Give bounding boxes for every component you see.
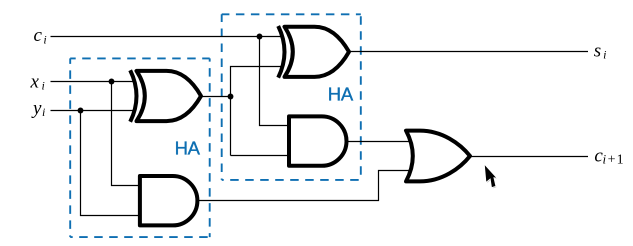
- svg-text:HA: HA: [175, 138, 201, 159]
- svg-text:ci: ci: [34, 25, 47, 46]
- node junction on y_i: [78, 108, 84, 114]
- and gate U4 (HA2 carry): [289, 116, 347, 165]
- wire XOR1 output to junction: [201, 96, 231, 98]
- mouse cursor: [485, 165, 497, 188]
- svg-text:si: si: [594, 41, 607, 62]
- wire AND1 output to OR bottom input: [197, 171, 411, 201]
- xor gate U3 (HA2 sum): [278, 26, 349, 78]
- wire XOR2 output to s_i: [349, 51, 588, 53]
- svg-text:ci+1: ci+1: [594, 145, 624, 167]
- xor gate U1 (HA1 sum): [130, 70, 201, 122]
- wire branch up to XOR2 bottom input: [231, 67, 283, 156]
- svg-text:xi: xi: [30, 71, 45, 92]
- HA box 2 (right half adder dashed outline): [222, 14, 361, 180]
- wire OR output to c_i+1: [470, 156, 588, 158]
- wire branch down to AND2 bottom input: [231, 155, 292, 157]
- node junction on XOR1 output: [228, 94, 234, 100]
- wire branch x_i down to AND1 top input: [112, 82, 143, 186]
- wire branch c_i down to AND2 top input: [260, 37, 292, 126]
- wire y_i input: [51, 110, 135, 112]
- svg-text:HA: HA: [328, 84, 354, 105]
- and gate U2 (HA1 carry): [140, 176, 198, 225]
- wire AND2 output to OR top input: [347, 141, 412, 143]
- HA box 1 (left half adder dashed outline): [70, 58, 210, 237]
- wire c_i input: [51, 36, 283, 38]
- wire branch y_i down to AND1 bottom input: [81, 111, 143, 216]
- or gate U5 (carry combine): [406, 131, 470, 182]
- svg-text:yi: yi: [31, 98, 45, 119]
- node junction on c_i: [257, 34, 263, 40]
- node junction on x_i: [109, 79, 115, 85]
- wire x_i input: [51, 81, 135, 83]
